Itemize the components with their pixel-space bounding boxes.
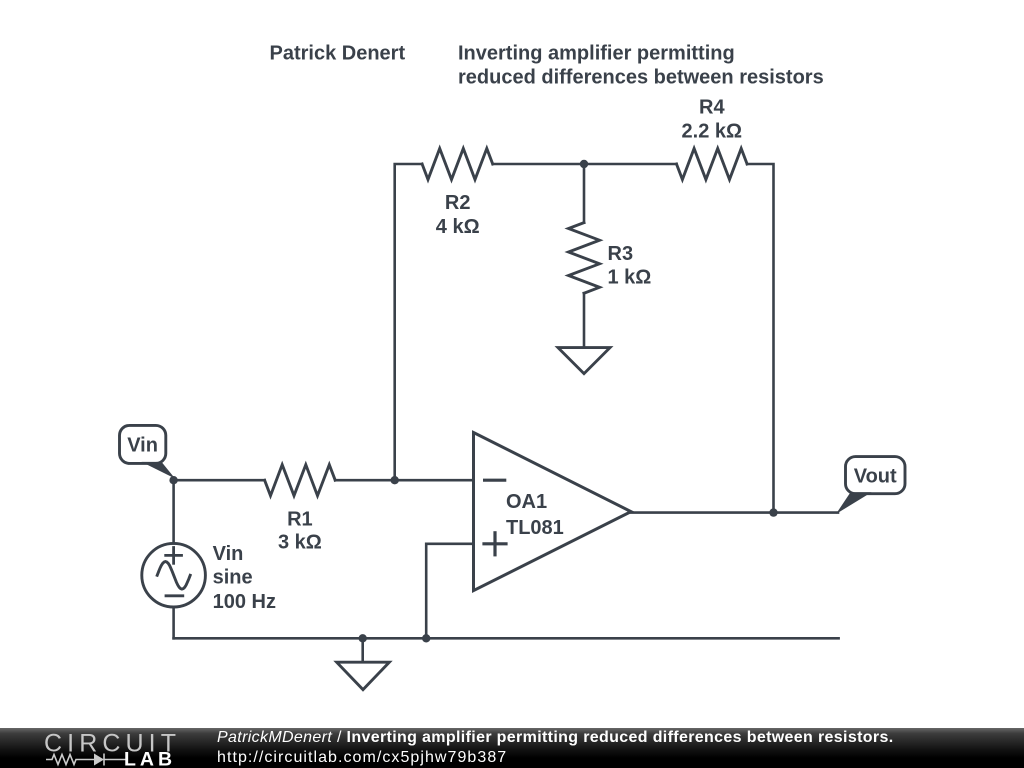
svg-text:100 Hz: 100 Hz — [213, 591, 276, 613]
wire top-right corner down to output — [747, 164, 773, 513]
voltage source plus sign — [166, 548, 182, 564]
voltage source V1 circle — [142, 543, 206, 607]
svg-text:OA1: OA1 — [506, 491, 547, 513]
svg-text:R3: R3 — [608, 243, 634, 265]
svg-text:2.2 kΩ: 2.2 kΩ — [682, 121, 743, 143]
node label Vout box — [846, 457, 906, 494]
junction node at Vin — [169, 476, 177, 484]
resistor R2 — [422, 149, 493, 180]
Vout label pointer — [836, 492, 872, 514]
junction node ground rail — [359, 634, 367, 642]
svg-text:4 kΩ: 4 kΩ — [436, 216, 480, 238]
op-amp minus pin symbol — [485, 479, 505, 482]
op-amp plus pin symbol — [484, 533, 506, 555]
svg-text:R2: R2 — [445, 192, 471, 214]
resistor R4 — [677, 149, 748, 180]
svg-text:Inverting amplifier permitting: Inverting amplifier permitting — [458, 43, 735, 65]
svg-text:LAB: LAB — [124, 749, 176, 768]
svg-text:reduced differences between re: reduced differences between resistors — [458, 67, 824, 89]
wire R2 to R4 — [493, 163, 677, 166]
wire top-left vertical — [395, 164, 422, 480]
logo diode triangle — [94, 754, 104, 766]
svg-text:R1: R1 — [287, 508, 313, 530]
node label Vin box — [120, 425, 166, 463]
voltage source sine symbol — [157, 562, 190, 590]
voltage source minus sign — [166, 594, 183, 597]
ground under R3 — [558, 348, 610, 374]
wire R3 to ground — [583, 293, 586, 347]
wire source top — [172, 480, 175, 543]
svg-text:Vout: Vout — [854, 466, 897, 488]
resistor R3 — [569, 223, 600, 294]
junction node plus rail — [422, 634, 430, 642]
svg-text:R4: R4 — [699, 97, 725, 119]
op-amp U1 triangle — [474, 433, 632, 591]
CircuitLab logo — [0, 728, 200, 768]
svg-text:Vin: Vin — [213, 543, 244, 565]
wire R3 stem — [583, 164, 586, 223]
op-amp output wire — [631, 511, 838, 514]
resistor R1 — [265, 465, 336, 496]
wire plus input — [426, 544, 473, 639]
ground stem bottom — [361, 638, 364, 662]
wire bottom rail — [174, 637, 839, 640]
footer bar — [0, 728, 1024, 768]
svg-text:Patrick Denert: Patrick Denert — [270, 43, 406, 65]
logo zigzag wire — [46, 754, 127, 766]
wire R1 to op-amp minus input — [335, 479, 473, 482]
svg-text:3 kΩ: 3 kΩ — [278, 531, 322, 553]
svg-text:sine: sine — [213, 566, 253, 588]
Vin label pointer — [142, 462, 176, 479]
footer text — [217, 729, 894, 767]
ground bottom — [337, 662, 390, 689]
wire input row — [174, 479, 265, 482]
svg-text:Vin: Vin — [127, 435, 158, 457]
junction node output — [769, 508, 777, 516]
wire source bottom — [172, 607, 175, 638]
svg-text:1 kΩ: 1 kΩ — [608, 267, 652, 289]
junction node R1/R2 — [391, 476, 399, 484]
junction node R2/R3/R4 — [580, 160, 588, 168]
svg-text:TL081: TL081 — [506, 517, 564, 539]
